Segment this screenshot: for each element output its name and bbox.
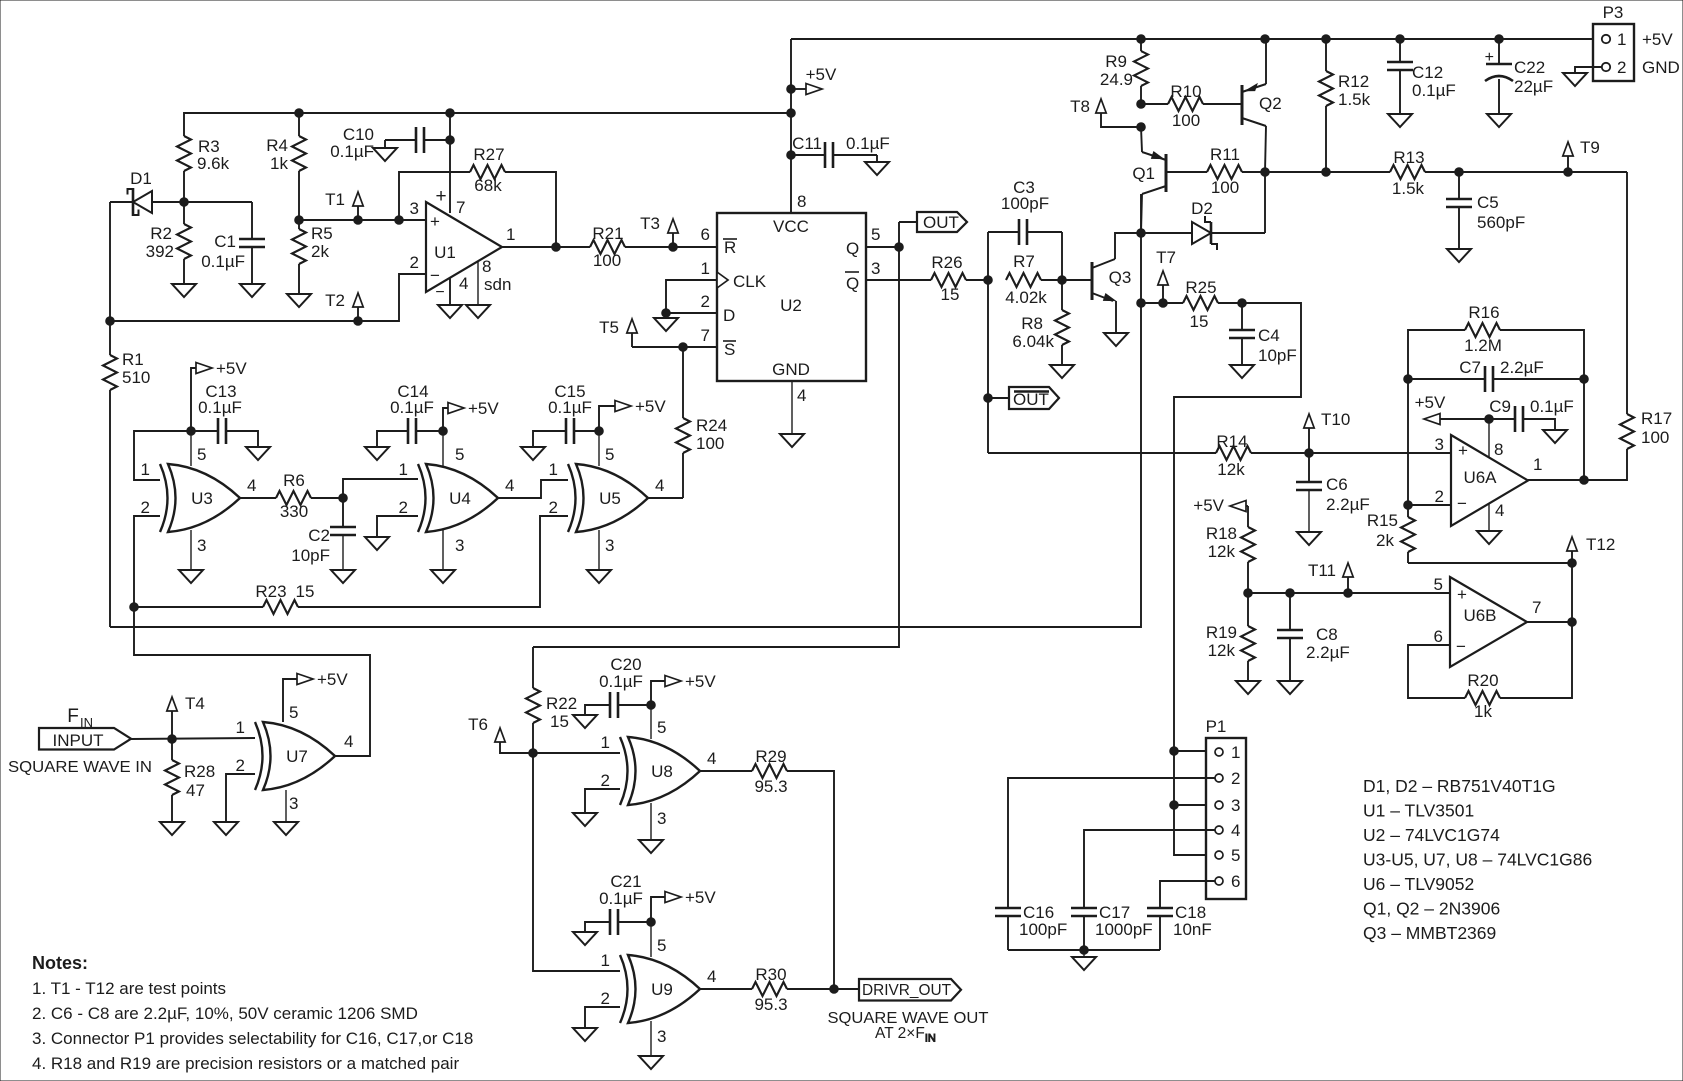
svg-text:3: 3	[1435, 435, 1444, 454]
svg-text:15: 15	[941, 285, 960, 304]
wire nOUT node to R14	[988, 452, 1216, 454]
svg-text:R23: R23	[255, 582, 286, 601]
net flag nOUT	[988, 387, 1059, 409]
wire U2 pin4 GND	[791, 381, 793, 434]
svg-text:0.1µF: 0.1µF	[548, 398, 592, 417]
svg-text:T12: T12	[1586, 535, 1615, 554]
svg-text:12k: 12k	[1208, 542, 1236, 561]
node nQ / C3 / R7 vertical	[984, 232, 993, 453]
svg-text:100pF: 100pF	[1001, 194, 1049, 213]
svg-text:R6: R6	[283, 471, 305, 490]
svg-text:6: 6	[701, 225, 710, 244]
svg-text:+: +	[430, 212, 440, 231]
svg-text:3. Connector P1 provides selec: 3. Connector P1 provides selectability f…	[32, 1029, 473, 1048]
svg-text:0.1µF: 0.1µF	[390, 398, 434, 417]
wire P3 pin2 to ground	[1575, 67, 1602, 73]
svg-text:OUT: OUT	[923, 213, 959, 232]
svg-text:U4: U4	[449, 489, 471, 508]
svg-text:DRIVR_OUT: DRIVR_OUT	[862, 982, 951, 999]
wire U4 pin5 stem	[442, 431, 444, 466]
svg-text:0.1µF: 0.1µF	[1530, 397, 1574, 416]
svg-text:5: 5	[197, 445, 206, 464]
svg-text:0.1µF: 0.1µF	[1412, 81, 1456, 100]
resistor R30 95.3	[752, 965, 859, 1014]
svg-text:R10: R10	[1170, 82, 1201, 101]
wire +5V to U1 pin7	[449, 113, 451, 213]
wire C16 C17 C18 common to ground	[1008, 946, 1160, 957]
ground C15	[521, 447, 545, 460]
wire U9 output	[700, 988, 752, 990]
svg-text:T1: T1	[325, 190, 345, 209]
+5V supply arrow U8	[651, 672, 716, 705]
svg-text:3: 3	[410, 199, 419, 218]
svg-text:1: 1	[399, 460, 408, 479]
xor gate U5 74LVC1G86	[576, 464, 648, 532]
svg-text:U3-U5, U7, U8 – 74LVC1G86: U3-U5, U7, U8 – 74LVC1G86	[1363, 850, 1592, 870]
svg-text:3: 3	[289, 794, 298, 813]
ground U7 pin2	[214, 822, 238, 835]
svg-text:5: 5	[1434, 575, 1443, 594]
resistor R5 2k	[292, 216, 333, 294]
svg-text:1.5k: 1.5k	[1392, 179, 1425, 198]
ground C13	[246, 447, 270, 460]
test point T1	[325, 190, 363, 220]
svg-text:−: −	[1456, 637, 1466, 656]
ground C8	[1278, 681, 1302, 694]
svg-text:C11: C11	[792, 134, 822, 153]
capacitor C21 0.1uF	[585, 872, 655, 935]
svg-text:100: 100	[593, 251, 621, 270]
svg-text:2: 2	[601, 989, 610, 1008]
ground U9 pin3	[639, 1056, 663, 1069]
capacitor C18 10nF	[1147, 903, 1212, 950]
wire Q3 collector to node	[1115, 233, 1141, 259]
wire U6B output to T12 node	[1527, 618, 1576, 627]
capacitor C8 2.2uF	[1277, 593, 1350, 681]
svg-text:U6B: U6B	[1463, 606, 1496, 625]
resistor R17 100	[1584, 409, 1672, 480]
svg-text:5: 5	[1231, 846, 1240, 865]
wire U7 pin3 stem	[285, 790, 287, 822]
wire U7 pin2 to ground	[226, 774, 255, 822]
svg-text:5: 5	[657, 718, 666, 737]
+5V supply arrow C15	[599, 397, 666, 431]
ground U5 pin3	[587, 570, 611, 583]
svg-text:7: 7	[456, 198, 465, 217]
svg-text:R26: R26	[931, 253, 962, 272]
ground U2 pin4	[780, 434, 804, 447]
svg-text:100pF: 100pF	[1019, 920, 1067, 939]
svg-text:8: 8	[1494, 440, 1503, 459]
test point T2	[325, 291, 363, 321]
capacitor C20 0.1uF	[585, 655, 655, 718]
wire D1 anode to T2 node	[106, 202, 115, 325]
svg-text:8: 8	[482, 257, 491, 276]
wire INPUT to U7 pin1	[131, 735, 255, 744]
ground C11	[865, 162, 889, 175]
svg-text:U8: U8	[651, 762, 673, 781]
wire U1 pin8 sdn to ground	[477, 261, 479, 305]
connector P1	[1206, 717, 1246, 899]
svg-text:1: 1	[141, 460, 150, 479]
ground U3 pin3	[179, 570, 203, 583]
svg-text:U5: U5	[599, 489, 621, 508]
svg-text:+5V: +5V	[1193, 496, 1224, 515]
svg-text:R14: R14	[1216, 432, 1247, 451]
svg-text:4.02k: 4.02k	[1005, 288, 1047, 307]
svg-text:6: 6	[1231, 872, 1240, 891]
svg-text:392: 392	[146, 242, 174, 261]
svg-text:S: S	[724, 340, 735, 359]
wire U4 output to U5 pin1	[498, 480, 568, 498]
svg-text:100: 100	[1641, 428, 1669, 447]
wire T6 node to U8 pin1 and U9 pin1	[533, 753, 620, 971]
resistor R22 15	[526, 647, 577, 753]
wire R11 node to R13 line	[1326, 171, 1390, 173]
svg-text:R12: R12	[1338, 72, 1369, 91]
resistor R9 24.9	[1100, 39, 1148, 104]
resistor R18 12k	[1206, 524, 1255, 593]
ground R8	[1050, 365, 1074, 378]
svg-text:4: 4	[707, 967, 716, 986]
svg-text:R5: R5	[311, 224, 333, 243]
svg-text:R15: R15	[1367, 511, 1398, 530]
svg-text:R8: R8	[1021, 314, 1043, 333]
svg-text:C4: C4	[1258, 326, 1280, 345]
svg-text:1: 1	[1231, 743, 1240, 762]
svg-text:1.5k: 1.5k	[1338, 90, 1371, 109]
net flag INPUT	[39, 728, 131, 750]
svg-text:T7: T7	[1156, 248, 1176, 267]
wire U1 output	[502, 243, 590, 252]
ground C5	[1447, 249, 1471, 262]
capacitor C15 0.1uF	[533, 382, 603, 447]
ground C14	[365, 447, 389, 460]
capacitor C14 0.1uF	[377, 382, 447, 447]
resistor R26 15	[931, 253, 988, 304]
wire R15 to T12 node	[1408, 559, 1576, 622]
wire Q2 emitter to rail	[1265, 39, 1267, 84]
svg-text:C8: C8	[1316, 625, 1338, 644]
capacitor C2 10pF	[291, 498, 356, 570]
resistor R14 12k	[1216, 432, 1451, 479]
+5V supply arrow U6A pin8	[1415, 393, 1494, 425]
wire C7 left to U6A pin2 node	[1407, 379, 1409, 505]
transistor Q3 MMBT2369	[1062, 259, 1131, 301]
svg-text:IN: IN	[80, 715, 93, 730]
ground C10	[373, 148, 397, 161]
+5V supply arrow U7	[283, 670, 348, 722]
ground U4 pin2	[365, 537, 389, 550]
test point T10	[1304, 410, 1350, 453]
wire Q1 emitter	[1141, 127, 1142, 152]
svg-text:3: 3	[657, 1027, 666, 1046]
svg-text:100: 100	[1211, 178, 1239, 197]
ground U8 pin3	[639, 840, 663, 853]
capacitor C17 1000pF	[1071, 903, 1153, 950]
+5V supply arrow C14	[443, 399, 499, 431]
svg-text:100: 100	[1172, 111, 1200, 130]
svg-text:D1: D1	[130, 169, 152, 188]
wire P1 pin4 to C17	[1084, 830, 1215, 908]
xor gate U4 74LVC1G86	[426, 464, 498, 532]
svg-text:95.3: 95.3	[754, 777, 787, 796]
wire U9 pin3 stem	[650, 1021, 652, 1056]
svg-text:R7: R7	[1013, 252, 1035, 271]
svg-text:4: 4	[505, 476, 514, 495]
wire U2 Q output node	[533, 222, 903, 647]
wire U3 pin5 stem	[190, 431, 192, 466]
resistor R15 2k	[1367, 501, 1415, 563]
wire +5V rail U1 area	[184, 109, 795, 136]
wire U5 output to R24	[648, 497, 683, 499]
svg-text:4: 4	[1495, 501, 1504, 520]
svg-text:1: 1	[601, 951, 610, 970]
ground C9	[1543, 430, 1567, 443]
svg-text:D2: D2	[1191, 199, 1213, 218]
resistor R24 100	[676, 347, 727, 498]
svg-text:T2: T2	[325, 291, 345, 310]
transistor Q2 2N3906 pnp	[1242, 84, 1282, 126]
svg-text:9.6k: 9.6k	[197, 154, 230, 173]
svg-text:−: −	[430, 266, 440, 285]
svg-text:+5V: +5V	[685, 888, 716, 907]
ground C21	[573, 932, 597, 945]
ground R5	[287, 294, 311, 307]
svg-text:510: 510	[122, 368, 150, 387]
wire P1 pin6 to C18	[1160, 881, 1215, 908]
svg-text:−: −	[1457, 494, 1467, 513]
ground C1	[240, 284, 264, 297]
svg-text:7: 7	[1532, 598, 1541, 617]
wire U9 pin2 to ground	[585, 1007, 620, 1028]
resistor R3 9.6k	[177, 136, 230, 202]
connector P3	[1593, 3, 1680, 81]
ground C4	[1230, 365, 1254, 378]
svg-text:0.1µF: 0.1µF	[599, 889, 643, 908]
wire U3 pin1 tied high	[134, 431, 191, 480]
parts list	[1363, 776, 1592, 943]
svg-text:1: 1	[701, 259, 710, 278]
resistor R27 68k feedback	[399, 145, 556, 247]
svg-text:+: +	[1485, 49, 1494, 66]
ground U1 pin4	[438, 305, 462, 318]
svg-text:C7: C7	[1459, 358, 1481, 377]
svg-text:10pF: 10pF	[291, 546, 330, 565]
svg-text:Q: Q	[846, 239, 859, 258]
svg-text:2: 2	[1617, 58, 1626, 77]
svg-text:T4: T4	[185, 694, 205, 713]
wire U2 CLK and D tied to ground	[662, 280, 717, 318]
svg-text:2: 2	[141, 498, 150, 517]
op-amp U6B TLV9052	[1434, 575, 1542, 667]
ground U6A pin4	[1477, 531, 1501, 544]
xor gate U3 74LVC1G86	[168, 464, 240, 532]
svg-text:C6: C6	[1326, 475, 1348, 494]
svg-text:1: 1	[1617, 30, 1626, 49]
wire R25 node to P1 pin1	[1170, 303, 1301, 855]
wire Q3 emitter to ground	[1115, 301, 1117, 333]
svg-text:+: +	[1457, 585, 1467, 604]
wire U5 pin3 stem	[598, 530, 600, 570]
svg-text:2.2µF: 2.2µF	[1326, 495, 1370, 514]
svg-text:C2: C2	[308, 526, 330, 545]
svg-text:C1: C1	[214, 232, 236, 251]
svg-text:22µF: 22µF	[1514, 77, 1553, 96]
svg-text:GND: GND	[1642, 58, 1680, 77]
svg-text:+5V: +5V	[806, 65, 837, 84]
svg-text:2: 2	[236, 756, 245, 775]
svg-text:R2: R2	[150, 224, 172, 243]
svg-text:Notes:: Notes:	[32, 953, 88, 973]
svg-text:12k: 12k	[1208, 641, 1236, 660]
capacitor C1 0.1uF	[184, 202, 265, 284]
svg-text:U1 – TLV3501: U1 – TLV3501	[1363, 801, 1474, 821]
svg-text:VCC: VCC	[773, 217, 809, 236]
svg-text:330: 330	[280, 502, 308, 521]
svg-text:2: 2	[399, 498, 408, 517]
svg-text:2: 2	[701, 292, 710, 311]
svg-text:Q3: Q3	[1109, 268, 1132, 287]
test point T6	[468, 715, 537, 757]
svg-text:R25: R25	[1185, 278, 1216, 297]
capacitor C13 0.1uF	[187, 382, 258, 447]
wire U1 pin4 to ground	[449, 278, 451, 305]
net flag DRIVR_OUT	[859, 979, 961, 1001]
svg-text:U3: U3	[191, 489, 213, 508]
resistor R12 1.5k	[1319, 39, 1371, 176]
svg-text:95.3: 95.3	[754, 995, 787, 1014]
ground C20	[573, 715, 597, 728]
svg-text:4: 4	[344, 732, 353, 751]
svg-text:10nF: 10nF	[1173, 920, 1212, 939]
svg-text:5: 5	[289, 703, 298, 722]
svg-text:24.9: 24.9	[1100, 70, 1133, 89]
wire Q1 collector node to R25	[1141, 299, 1167, 308]
svg-text:SQUARE WAVE IN: SQUARE WAVE IN	[8, 759, 152, 776]
wire +5V net at U2 VCC	[787, 39, 796, 213]
svg-text:2: 2	[549, 498, 558, 517]
svg-text:3: 3	[605, 536, 614, 555]
wire U6A pin4 to ground	[1488, 503, 1490, 531]
svg-text:R1: R1	[122, 350, 144, 369]
ground C12	[1388, 114, 1412, 127]
ground U2 CLK D	[654, 318, 678, 331]
svg-text:1k: 1k	[270, 154, 288, 173]
op-amp U6A TLV9052	[1435, 435, 1543, 526]
ground R2	[172, 284, 196, 297]
svg-text:2.2µF: 2.2µF	[1500, 358, 1544, 377]
ground C6	[1297, 532, 1321, 545]
svg-text:1: 1	[549, 460, 558, 479]
wire R6 to U4 pin1	[343, 479, 418, 498]
svg-text:+: +	[1458, 441, 1468, 460]
resistor R7 4.02k	[1005, 252, 1066, 307]
svg-text:Q: Q	[846, 274, 859, 293]
xor gate U7 74LVC1G86	[263, 722, 335, 790]
capacitor C22 22uF polarized	[1485, 39, 1553, 114]
test point T11	[1308, 561, 1353, 593]
svg-text:4: 4	[1231, 821, 1240, 840]
svg-text:7: 7	[701, 326, 710, 345]
svg-text:1k: 1k	[1474, 702, 1492, 721]
svg-text:T10: T10	[1321, 410, 1350, 429]
svg-text:R9: R9	[1105, 52, 1127, 71]
wire R18 R19 node to U6B pin5	[1244, 589, 1450, 598]
ground U4 pin3	[431, 570, 455, 583]
wire P1 pin2 to C16	[1008, 778, 1215, 908]
notes	[32, 953, 473, 1073]
wire U6A pin2	[1408, 504, 1451, 506]
capacitor C4 10pF	[1229, 303, 1297, 365]
+5V supply arrow U9	[651, 888, 716, 922]
svg-text:6: 6	[1434, 627, 1443, 646]
capacitor C3 100pF	[988, 178, 1062, 280]
svg-text:+5V: +5V	[216, 359, 247, 378]
svg-text:R19: R19	[1206, 623, 1237, 642]
svg-text:+5V: +5V	[1415, 393, 1446, 412]
svg-text:3: 3	[1231, 796, 1240, 815]
svg-text:2: 2	[410, 253, 419, 272]
resistor R28 47	[165, 739, 215, 822]
resistor R1 510	[103, 321, 150, 627]
ground C16 C17 C18	[1072, 957, 1096, 970]
svg-text:T6: T6	[468, 715, 488, 734]
svg-text:R24: R24	[696, 416, 727, 435]
wire U8 output	[700, 770, 752, 772]
resistor R11 100	[1166, 145, 1326, 197]
wire U1 pin2 to T2 line	[110, 274, 426, 325]
wire U8 pin2 to ground	[585, 789, 620, 813]
wire R1 long net to Q1 collector node	[110, 194, 1141, 627]
wire R23 node to U7 output	[134, 607, 370, 756]
ground P3 pin2	[1563, 73, 1587, 86]
svg-text:R27: R27	[473, 145, 504, 164]
svg-text:+: +	[435, 186, 446, 207]
capacitor C11 0.1uF	[791, 134, 890, 168]
resistor R8 6.04k	[1012, 280, 1069, 365]
wire Q2 collector to R11 node	[1265, 126, 1266, 172]
svg-text:R29: R29	[755, 747, 786, 766]
svg-text:1.2M: 1.2M	[1464, 336, 1502, 355]
svg-text:INPUT: INPUT	[53, 731, 104, 750]
ground R28	[160, 822, 184, 835]
ground R19	[1236, 681, 1260, 694]
svg-text:2: 2	[1231, 769, 1240, 788]
wire U3 pin3 stem	[190, 530, 192, 570]
svg-text:C22: C22	[1514, 58, 1545, 77]
svg-text:5: 5	[871, 225, 880, 244]
svg-text:+5V: +5V	[685, 672, 716, 691]
svg-text:15: 15	[550, 712, 569, 731]
wire U8 pin5 stem	[650, 705, 652, 739]
resistor R25 15	[1163, 278, 1246, 331]
resistor R20 1k	[1408, 622, 1572, 721]
resistor R29 95.3	[752, 747, 834, 990]
svg-text:U6A: U6A	[1463, 468, 1497, 487]
svg-text:1. T1 - T12 are test points: 1. T1 - T12 are test points	[32, 979, 226, 998]
svg-text:T11: T11	[1308, 561, 1336, 580]
wire U3 output	[240, 497, 276, 499]
capacitor C7 2.2uF	[1404, 358, 1589, 392]
capacitor C5 560pF	[1446, 172, 1525, 249]
label FIN	[67, 706, 93, 730]
+5V supply arrow U2	[791, 65, 837, 95]
svg-text:2: 2	[601, 771, 610, 790]
svg-text:560pF: 560pF	[1477, 213, 1525, 232]
test point T9	[1563, 138, 1600, 172]
resistor R23 15	[134, 516, 568, 614]
